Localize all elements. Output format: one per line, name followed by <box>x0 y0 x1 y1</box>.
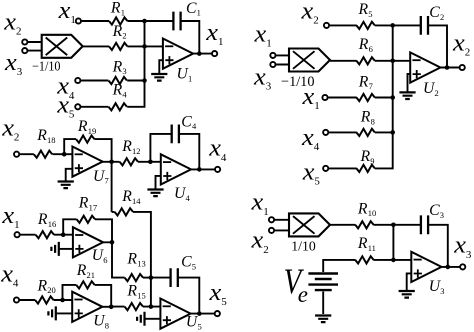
svg-text:e: e <box>298 282 308 307</box>
svg-text:R15: R15 <box>126 283 145 301</box>
svg-text:x5: x5 <box>302 160 320 188</box>
svg-text:R5: R5 <box>358 1 373 19</box>
svg-text:x1: x1 <box>58 0 76 26</box>
svg-text:R18: R18 <box>36 127 55 145</box>
svg-text:R20: R20 <box>37 277 56 295</box>
svg-text:R8: R8 <box>360 109 375 127</box>
svg-text:U7: U7 <box>93 168 109 186</box>
svg-text:R21: R21 <box>76 262 95 280</box>
svg-text:R7: R7 <box>358 73 373 91</box>
svg-text:x2: x2 <box>1 115 19 143</box>
svg-text:x2: x2 <box>3 9 21 37</box>
svg-text:R9: R9 <box>360 148 375 166</box>
svg-text:U6: U6 <box>92 247 108 265</box>
svg-text:R13: R13 <box>126 251 145 269</box>
svg-text:C3: C3 <box>429 202 444 220</box>
svg-text:C1: C1 <box>186 0 201 18</box>
svg-text:U5: U5 <box>186 313 202 331</box>
svg-text:U3: U3 <box>429 278 445 296</box>
svg-text:x4: x4 <box>301 125 320 153</box>
svg-text:R12: R12 <box>121 138 140 156</box>
svg-text:x1: x1 <box>253 22 271 50</box>
svg-text:x3: x3 <box>4 50 22 78</box>
svg-text:U2: U2 <box>423 80 439 98</box>
svg-text:C4: C4 <box>181 113 197 131</box>
svg-text:−1/10: −1/10 <box>32 58 61 73</box>
svg-text:U1: U1 <box>177 66 193 84</box>
svg-text:R16: R16 <box>37 211 56 229</box>
svg-text:U4: U4 <box>174 185 191 203</box>
svg-text:C5: C5 <box>181 254 196 272</box>
svg-text:R11: R11 <box>357 235 376 253</box>
svg-text:R1: R1 <box>110 0 125 18</box>
svg-text:x4: x4 <box>0 262 19 290</box>
svg-text:R6: R6 <box>358 36 373 54</box>
svg-text:x2: x2 <box>452 30 470 58</box>
svg-text:x1: x1 <box>205 20 223 48</box>
svg-text:x2: x2 <box>300 0 318 27</box>
svg-text:R2: R2 <box>112 23 127 41</box>
svg-text:x2: x2 <box>250 228 268 256</box>
svg-text:x1: x1 <box>1 203 19 231</box>
svg-text:R19: R19 <box>77 118 96 136</box>
svg-text:1/10: 1/10 <box>291 240 316 255</box>
svg-text:x4: x4 <box>208 136 227 164</box>
svg-text:R4: R4 <box>112 81 128 99</box>
svg-text:R17: R17 <box>78 195 97 213</box>
svg-text:R10: R10 <box>357 200 376 218</box>
svg-text:R3: R3 <box>112 58 127 76</box>
svg-text:R14: R14 <box>121 188 141 206</box>
svg-text:U8: U8 <box>93 313 109 331</box>
svg-text:x3: x3 <box>253 64 271 92</box>
svg-text:x5: x5 <box>208 280 226 308</box>
svg-text:x3: x3 <box>453 233 471 261</box>
svg-text:C2: C2 <box>429 4 444 22</box>
svg-text:x1: x1 <box>250 190 268 218</box>
svg-text:−1/10: −1/10 <box>281 74 315 90</box>
